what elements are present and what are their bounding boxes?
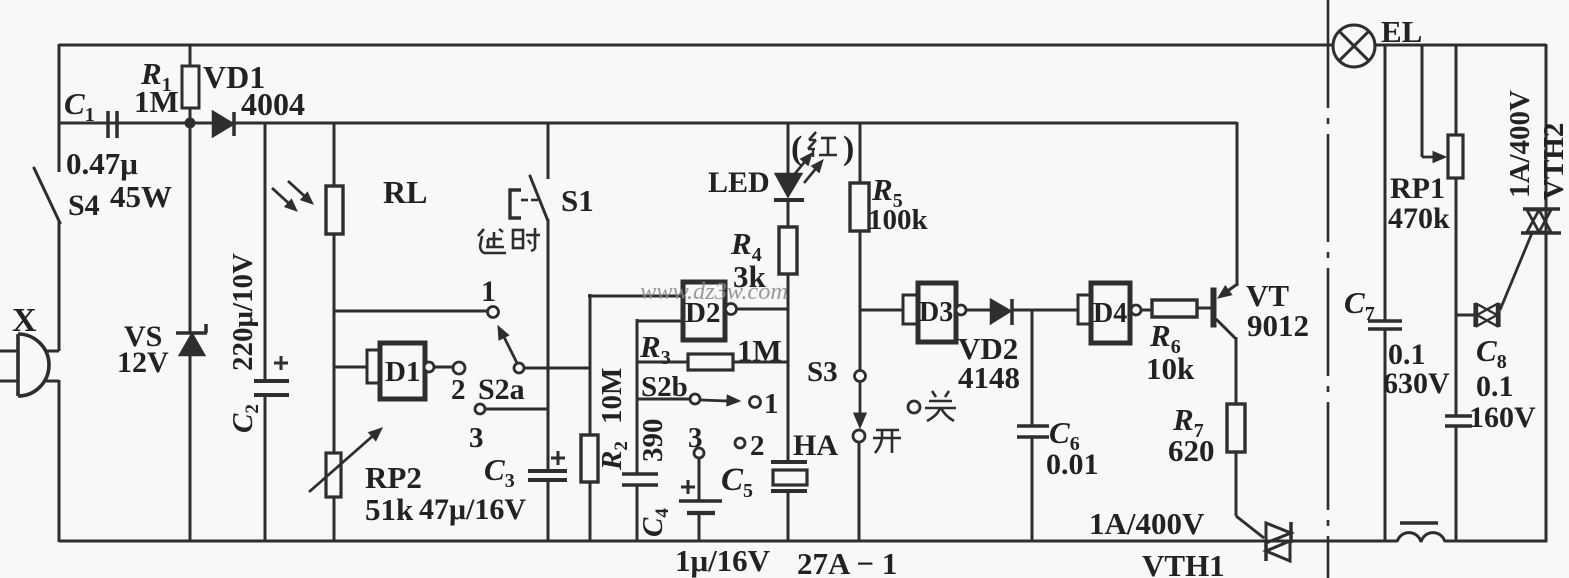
S2a contact 3 (475, 404, 485, 414)
label 27A-1 (797, 546, 897, 578)
wire left vertical upper (58, 44, 61, 172)
label 3k (733, 259, 767, 294)
svg-text:S3: S3 (807, 356, 838, 388)
svg-text:RL: RL (383, 174, 427, 210)
svg-text:220μ/10V: 220μ/10V (227, 253, 259, 371)
label 160V (1469, 401, 1536, 434)
capacitor C3 (528, 471, 567, 480)
S2a contact 2 (453, 362, 465, 374)
wire VT emitter up (1236, 122, 1239, 286)
svg-text:100k: 100k (868, 204, 929, 236)
svg-text:0.01: 0.01 (1046, 448, 1099, 481)
wire S2a contact 3 to S1 line (485, 408, 549, 411)
lamp EL (1333, 25, 1375, 67)
svg-text:(: ( (791, 130, 802, 167)
svg-text:620: 620 (1168, 433, 1215, 468)
label 9012 (1247, 308, 1309, 343)
label C4 390 (637, 419, 669, 463)
label 620 (1168, 433, 1215, 468)
label HA (793, 429, 838, 462)
label D2 (685, 297, 720, 329)
label 10k (1146, 351, 1195, 386)
D1 input terminal (367, 350, 380, 383)
svg-text:51k: 51k (365, 492, 414, 527)
svg-text:470k: 470k (1388, 202, 1450, 235)
S2a blade with arrow (498, 326, 517, 363)
label R7 (1172, 402, 1204, 442)
label 4004 (241, 86, 305, 122)
wire left vertical middle (58, 221, 61, 351)
label R4 (730, 226, 762, 266)
capacitor C6 (1017, 426, 1049, 437)
D3 output bubble (956, 305, 966, 315)
svg-text:1M: 1M (134, 84, 179, 119)
C2 plus sign (274, 356, 288, 370)
wire S1 bottom to C3 (547, 219, 550, 471)
capacitor C4 (622, 474, 658, 485)
wire LED to R4 (787, 200, 790, 227)
label VD2 (958, 331, 1018, 366)
label C2 (227, 404, 263, 433)
wire S2b pivot (637, 398, 690, 401)
S2b pivot contact (690, 394, 700, 404)
wire R1 bottom (189, 108, 192, 124)
S1 delay symbol (510, 190, 538, 218)
wire S1 top (547, 122, 550, 179)
wire R7 to gate (1236, 452, 1264, 538)
svg-text:45W: 45W (110, 179, 172, 214)
wire LED top (787, 122, 790, 174)
capacitor C1 (108, 111, 117, 138)
gate D2 (683, 282, 725, 340)
label 0.47u (66, 146, 138, 181)
label 630V (1383, 367, 1450, 400)
label S1 (561, 183, 594, 218)
wire HA bottom (787, 491, 790, 542)
triac VTH1 (1266, 522, 1291, 561)
label R3 (639, 329, 671, 369)
D1 output bubble (424, 362, 434, 372)
svg-text:X: X (12, 302, 37, 339)
wire C7 branch (1384, 44, 1387, 321)
label 0.1 C7 (1388, 338, 1426, 371)
wire D1 input (334, 366, 367, 369)
svg-text:1μ/16V: 1μ/16V (675, 543, 771, 578)
wire S2a pivot to R2 line (524, 367, 590, 370)
wire D3 to VD2 (966, 309, 991, 312)
photoresistor RL (326, 186, 343, 234)
svg-text:390: 390 (637, 419, 669, 463)
label yanshi delay chinese (478, 228, 540, 253)
svg-text:S1: S1 (561, 183, 594, 218)
wire R4 down (787, 274, 790, 462)
diode VD2 (991, 299, 1012, 325)
label R6 (1149, 318, 1181, 358)
svg-text:0.1: 0.1 (1476, 370, 1514, 403)
label C1 (64, 86, 95, 126)
label VS (124, 320, 162, 353)
D4 output bubble (1131, 305, 1141, 315)
label 1A/400V bottom (1089, 506, 1205, 541)
inductor filter choke (1397, 523, 1445, 542)
label C5 (721, 462, 753, 502)
label yanshi (delay) (0, 0, 1, 1)
label X (12, 302, 37, 339)
S1 blade (530, 176, 548, 221)
svg-text:4004: 4004 (241, 86, 305, 122)
wire C6 bottom (1031, 437, 1034, 542)
wire C2 branch bottom (264, 395, 267, 542)
wire C4 line top (636, 319, 639, 474)
watermark (640, 279, 788, 305)
wire RL top (333, 122, 336, 186)
wire RP1 down (1455, 178, 1458, 416)
wire top supply bus (59, 44, 1546, 47)
wire to D2 input 1 (588, 295, 681, 298)
label VTH1 (1142, 548, 1225, 578)
label D3 (919, 297, 953, 328)
wire R3 left (637, 361, 688, 364)
node A junction dot (185, 118, 195, 128)
wire VD2 to D4 (1013, 309, 1078, 312)
svg-text:1: 1 (481, 275, 496, 308)
wire C8 bottom (1455, 426, 1458, 542)
switch S3 bottom contact (853, 430, 865, 442)
S2a contact 1 (488, 307, 499, 318)
label LED (708, 166, 770, 199)
gate D4 (1091, 283, 1130, 343)
label VTH2 vertical (1538, 123, 1569, 200)
label S2b 3 (688, 422, 703, 454)
svg-text:10k: 10k (1146, 351, 1195, 386)
wire C6 branch (1031, 310, 1034, 426)
label S2b (641, 371, 688, 403)
wire to D2 input 2 (637, 320, 681, 323)
label 1A/400V vertical (1504, 90, 1536, 198)
triac VTH2 (1521, 209, 1561, 233)
label guan (off) (925, 391, 956, 421)
label 100k (868, 204, 929, 236)
wire RL bottom to RP2 (333, 234, 336, 453)
svg-text:D3: D3 (919, 297, 953, 328)
svg-text:S2a: S2a (478, 373, 525, 406)
resistor R5 (850, 183, 869, 231)
label 51k (365, 492, 414, 527)
svg-text:10M: 10M (596, 368, 628, 424)
label 45W (110, 179, 172, 214)
wire D4 to R6 (1141, 309, 1152, 312)
wire diac to VTH2 gate (1500, 233, 1532, 310)
label C6 (1049, 415, 1080, 455)
wire C2 branch top (264, 122, 267, 381)
label S2b 1 (764, 388, 779, 420)
D2 output bubble (726, 304, 737, 315)
svg-text:S4: S4 (68, 189, 100, 222)
label S2b 2 (750, 430, 765, 462)
wire right vertical (1545, 44, 1548, 542)
gate D1 (380, 343, 425, 399)
label RL (383, 174, 427, 210)
label 12V (117, 346, 169, 379)
wire R1 top (189, 44, 192, 66)
svg-text:RP2: RP2 (365, 460, 422, 495)
label RP2 (365, 460, 422, 495)
switch S3 top contact (855, 371, 866, 382)
label S2a (478, 373, 525, 406)
svg-text:HA: HA (793, 429, 838, 462)
capacitor C7 (1368, 321, 1402, 329)
label D4 (1093, 298, 1127, 329)
wire R2 bottom (589, 482, 592, 542)
D4 input terminal (1078, 295, 1091, 324)
svg-text:): ) (843, 130, 854, 167)
S2b contact 3 (694, 448, 704, 458)
wire S3 bottom (858, 442, 861, 542)
gate D3 (918, 283, 956, 342)
label VD1 (203, 59, 265, 95)
wire mid bus (rectified DC rail) (107, 122, 1237, 125)
diode VD1 (213, 112, 234, 136)
transistor VT base bar (1211, 288, 1216, 327)
label VT (1246, 278, 1289, 313)
capacitor C2 (254, 381, 289, 395)
label R5 (871, 172, 903, 212)
wire contact3 to cap (698, 458, 701, 501)
wire VS branch (189, 122, 192, 542)
wire left vertical lower (58, 380, 61, 542)
S3 off contact (908, 401, 920, 413)
wire R5 to S3 (859, 231, 862, 371)
wire bottom ground bus (59, 540, 1547, 543)
svg-text:0.47μ: 0.47μ (66, 146, 138, 181)
svg-text:27A − 1: 27A − 1 (797, 546, 897, 578)
wire R2 line top (589, 294, 592, 435)
svg-text:VTH1: VTH1 (1142, 548, 1225, 578)
svg-text:4148: 4148 (958, 360, 1020, 395)
wire C3 bottom (547, 480, 550, 542)
potentiometer RP2 (326, 453, 341, 497)
label S3 (807, 356, 838, 388)
potentiometer RP1 (1448, 135, 1463, 178)
label S2a 2 (451, 374, 466, 406)
wire D1 output (434, 366, 454, 369)
label RP1 (1390, 172, 1445, 205)
svg-text:3: 3 (688, 422, 703, 454)
LED diode (774, 174, 804, 200)
label 4148 (958, 360, 1020, 395)
wire C4 bottom (636, 485, 639, 542)
wire R5 top (859, 122, 862, 183)
resistor R3 (688, 354, 733, 370)
label 1M (134, 84, 179, 119)
svg-text:3: 3 (469, 422, 484, 454)
svg-text:9012: 9012 (1247, 308, 1309, 343)
label EL (1381, 14, 1422, 49)
RP2 arrow (309, 428, 382, 492)
VT emitter with arrow (1218, 285, 1236, 298)
label kai (on) (873, 430, 901, 453)
resistor R7 (1227, 404, 1245, 452)
label D1 (385, 356, 420, 388)
label S2a 1 (481, 275, 496, 308)
wire 1u cap bottom (698, 513, 701, 542)
label S2a 3 (469, 422, 484, 454)
S2b contact 1 (750, 397, 761, 408)
label 47u/16V (419, 493, 526, 526)
plug X symbol (0, 334, 59, 396)
VT collector (1216, 319, 1236, 339)
wire R3 right (733, 361, 789, 364)
svg-text:12V: 12V (117, 346, 169, 379)
label 0.1 C8 (1476, 370, 1514, 403)
svg-text:47μ/16V: 47μ/16V (419, 493, 526, 526)
LED arrows (793, 153, 823, 183)
svg-text:630V: 630V (1383, 367, 1450, 400)
label C7 (1344, 285, 1375, 325)
label C4 (637, 508, 673, 537)
S2b blade arrow (701, 395, 740, 406)
svg-text:VTH2: VTH2 (1538, 123, 1569, 200)
label S4 (68, 189, 100, 222)
svg-text:1: 1 (764, 388, 779, 420)
svg-text:www.dz3w.com: www.dz3w.com (640, 279, 788, 305)
label 1u/16V (675, 543, 771, 578)
wire to S2a contact 1 (334, 310, 488, 313)
resistor R2 (581, 435, 598, 482)
resistor R1 (182, 66, 199, 108)
wire collector to R7 (1235, 337, 1238, 404)
svg-text:D1: D1 (385, 356, 420, 388)
label 470k (1388, 202, 1450, 235)
wire RP1 top (1455, 44, 1458, 135)
label C2 value (227, 253, 259, 371)
wire D2 output (736, 308, 789, 311)
resistor R4 (779, 227, 797, 274)
S2a pivot contact (514, 363, 524, 373)
S2b contact 2 (735, 438, 745, 448)
svg-text:LED: LED (708, 166, 770, 199)
svg-text:1A/400V: 1A/400V (1089, 506, 1205, 541)
svg-text:RP1: RP1 (1390, 172, 1445, 205)
svg-text:S2b: S2b (641, 371, 688, 403)
switch S4 blade (34, 168, 60, 223)
wire to D3 input (860, 309, 903, 312)
wire to diac (1456, 314, 1475, 317)
capacitor C8 (1445, 416, 1472, 426)
zener diode VS (176, 324, 207, 355)
label C3 (484, 452, 515, 492)
wire RP1 wiper (1422, 44, 1446, 162)
dash-dot boundary line (1327, 0, 1330, 578)
C3 plus sign (551, 451, 565, 465)
S3 blade arrow (854, 382, 867, 428)
svg-text:EL: EL (1381, 14, 1422, 49)
wire left segment of mid bus to C1 (59, 122, 108, 125)
wire C7 bottom (1384, 329, 1387, 542)
wire R6 to base (1197, 307, 1212, 310)
label R1 (140, 56, 172, 96)
sounder HA (771, 462, 807, 491)
1u plus sign (681, 480, 695, 494)
label hong (red) with parens (791, 130, 854, 167)
label C8 (1476, 333, 1507, 373)
RL light arrows (272, 181, 313, 211)
D3 input terminal (903, 295, 917, 324)
wire RP2 bottom (333, 497, 336, 542)
svg-text:160V: 160V (1469, 401, 1536, 434)
resistor R6 (1152, 300, 1197, 317)
capacitor C-1u electrolytic (679, 501, 722, 513)
label R3 1M (737, 333, 782, 368)
svg-text:1A/400V: 1A/400V (1504, 90, 1536, 198)
svg-text:D4: D4 (1093, 298, 1127, 329)
label R2 10M (596, 368, 632, 471)
svg-text:2: 2 (750, 430, 765, 462)
svg-text:2: 2 (451, 374, 466, 406)
diac (1475, 303, 1499, 327)
label 0.01 (1046, 448, 1099, 481)
